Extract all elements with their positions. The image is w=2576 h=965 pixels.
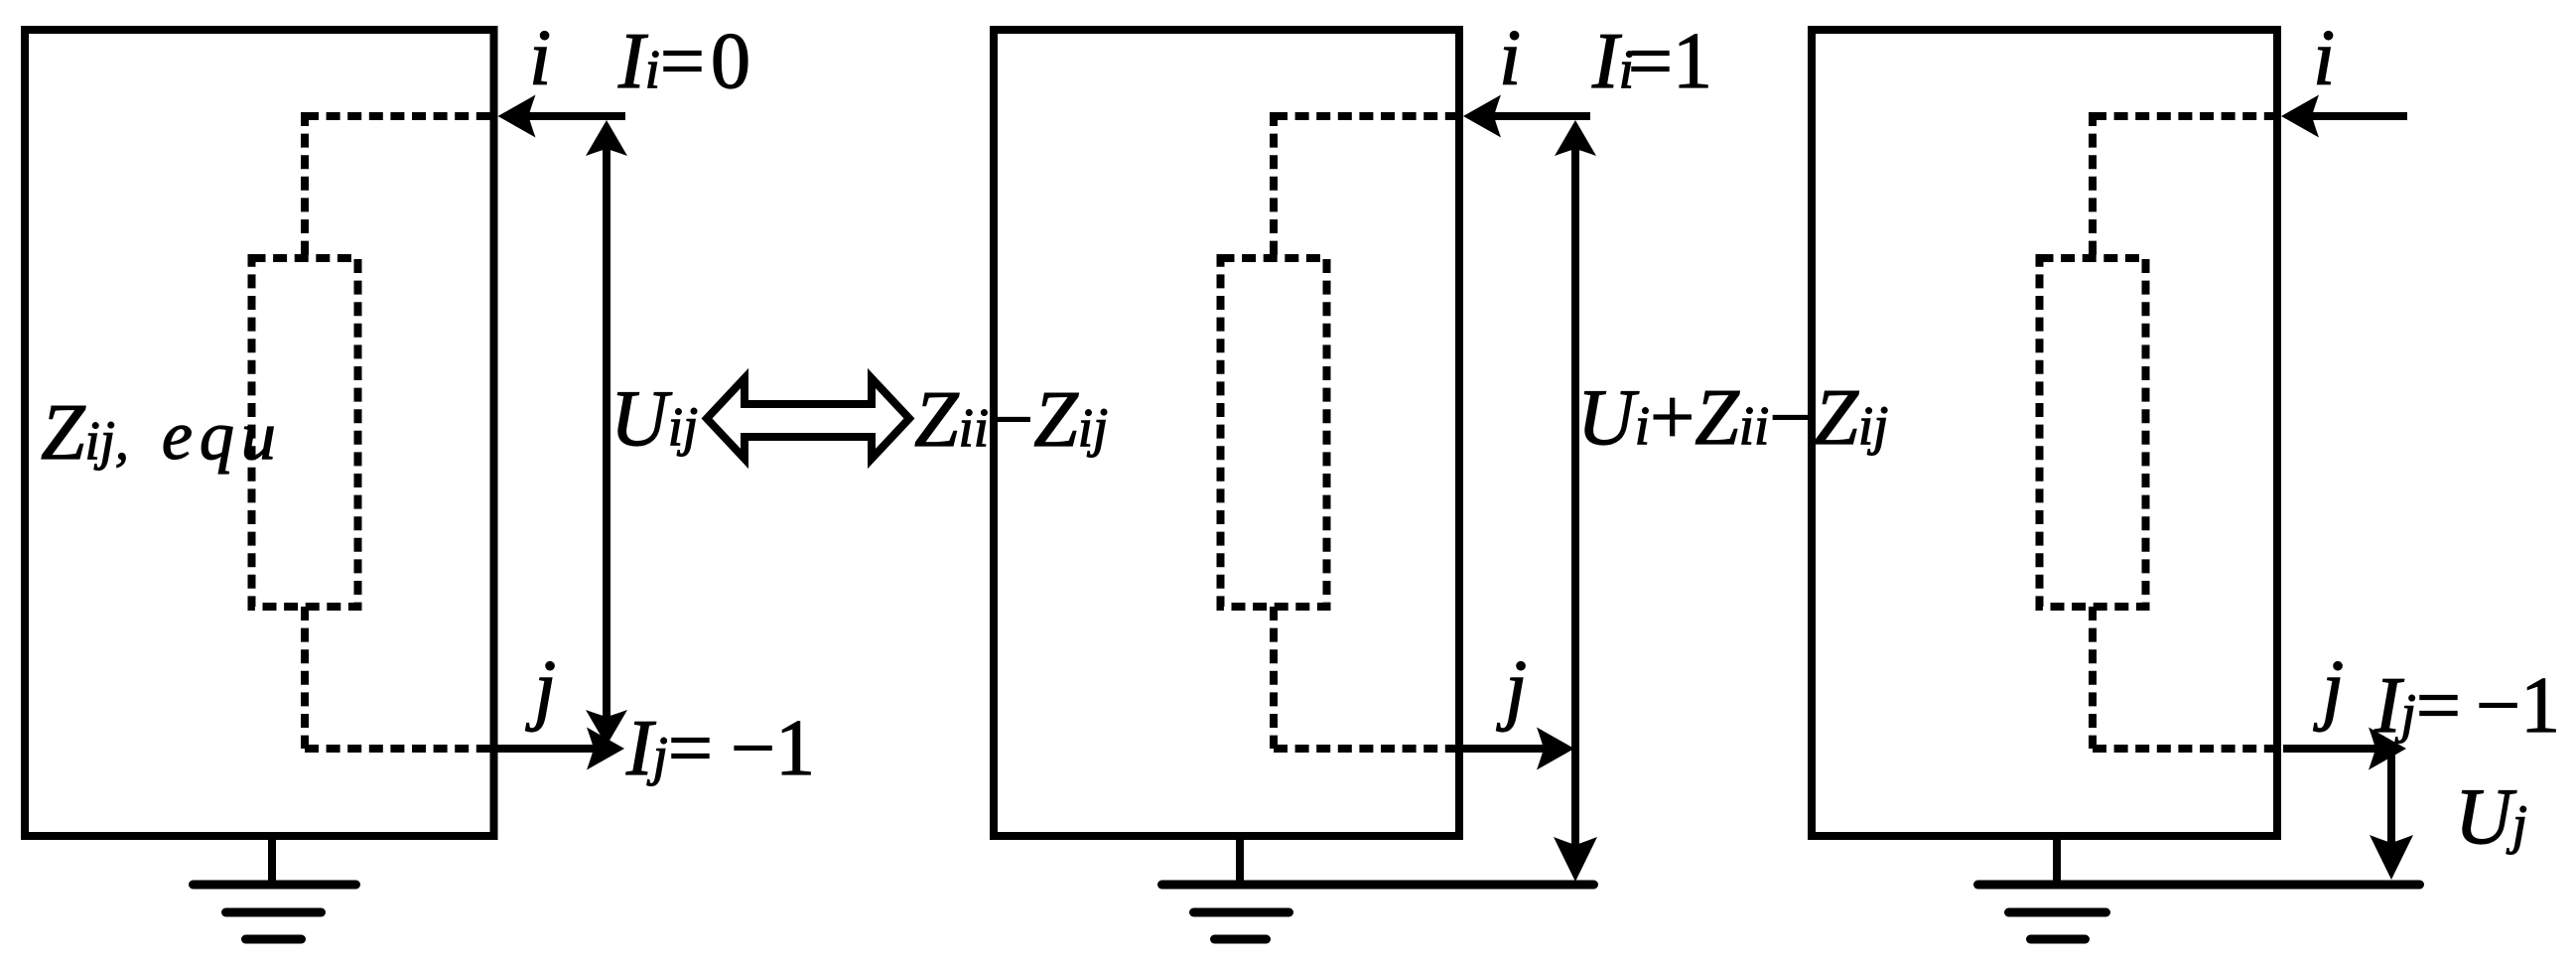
network box N2 <box>994 30 1459 836</box>
impedance N2 dashed body <box>1221 258 1327 607</box>
arrowhead: Uij line top N1 <box>586 120 627 156</box>
svg-text:j: j <box>525 645 556 733</box>
impedance Zij,equ dashed body <box>252 258 358 607</box>
wire: N2 dashed from impedance bottom <box>1270 607 1278 749</box>
arrowhead: Uj bottom at ground N3 <box>2370 835 2413 880</box>
svg-text:Ii=0: Ii=0 <box>617 18 750 105</box>
arrowhead: j out of N3 <box>2369 728 2406 770</box>
wire: Uj dimension line N3 <box>2387 749 2395 870</box>
svg-text:Zij,equ: Zij,equ <box>41 389 283 477</box>
wire: node i current arrow shaft N2 <box>1492 112 1590 120</box>
svg-text:Ii=1: Ii=1 <box>1591 18 1712 105</box>
wire: N3 bottom dashed lead <box>2093 745 2277 753</box>
svg-text:Ij=−1: Ij=−1 <box>2373 662 2560 750</box>
wire: node j current arrow shaft N3 <box>2283 745 2377 753</box>
wire: node j current arrow shaft N2 <box>1462 745 1546 753</box>
arrowhead: N2 dimension bottom at ground <box>1554 837 1597 882</box>
svg-text:i: i <box>529 15 551 102</box>
arrowhead: i into N2 <box>1463 95 1501 138</box>
svg-text:Ui+Zii−Zij: Ui+Zii−Zij <box>1577 374 1888 462</box>
network box N3 <box>1812 30 2277 836</box>
svg-text:Zii−Zij: Zii−Zij <box>914 376 1108 464</box>
wire: N2 bottom dashed lead <box>1274 745 1459 753</box>
equivalence double arrow between N1 and N2 <box>707 378 909 459</box>
svg-text:Uij: Uij <box>610 375 698 463</box>
svg-text:j: j <box>2313 645 2344 733</box>
wire: dimension line N2 (Ui+Zii-Zij) <box>1571 129 1579 872</box>
wire: N2 dashed drop to impedance <box>1270 112 1278 258</box>
ground symbol N1 <box>194 836 356 939</box>
impedance N3 dashed body <box>2040 258 2146 607</box>
wire: N3 dashed drop to impedance <box>2089 112 2097 258</box>
wire: N1 top dashed lead <box>305 112 493 120</box>
wire: N3 dashed from impedance bottom <box>2089 607 2097 749</box>
arrowhead: j out of N2 <box>1537 728 1574 770</box>
wire: node i current arrow shaft N1 <box>526 112 625 120</box>
arrowhead: Uij line bottom N1 <box>586 710 627 746</box>
network box N1 <box>25 30 494 836</box>
wire: N1 bottom dashed lead <box>305 745 493 753</box>
wire: node j current arrow shaft N1 <box>497 745 596 753</box>
svg-text:i: i <box>1499 15 1521 102</box>
wire: N1 dashed drop to impedance <box>301 112 309 258</box>
wire: N2 top dashed lead <box>1274 112 1459 120</box>
wire: Uij dimension line N1 <box>603 129 610 737</box>
ground symbol N2 (top bar extended to dimension arrow) <box>1162 836 1594 939</box>
svg-text:j: j <box>1496 645 1527 733</box>
wire: N3 top dashed lead <box>2093 112 2277 120</box>
wire: N1 dashed from impedance bottom <box>301 607 309 749</box>
wire: node i current arrow shaft N3 <box>2310 112 2407 120</box>
svg-text:i: i <box>2313 15 2335 102</box>
arrowhead: j out of N1 <box>587 728 624 770</box>
ground symbol N3 (top bar extended to Uj arrow) <box>1978 836 2420 939</box>
svg-text:Uj: Uj <box>2455 773 2527 861</box>
svg-text:Ij=−1: Ij=−1 <box>625 705 815 792</box>
arrowhead: N2 dimension top <box>1555 120 1596 156</box>
arrowhead: i into N1 <box>498 95 536 138</box>
arrowhead: i into N3 <box>2281 95 2319 138</box>
